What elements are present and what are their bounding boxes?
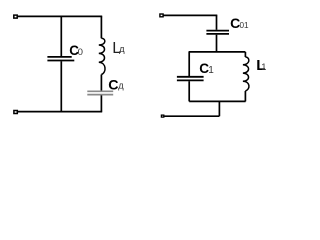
svg-text:д: д: [119, 44, 125, 55]
svg-text:д: д: [118, 81, 124, 91]
svg-text:0: 0: [78, 47, 83, 58]
svg-text:C: C: [108, 78, 118, 94]
svg-text:01: 01: [240, 21, 250, 30]
svg-text:1: 1: [261, 61, 266, 72]
svg-text:1: 1: [208, 65, 214, 76]
